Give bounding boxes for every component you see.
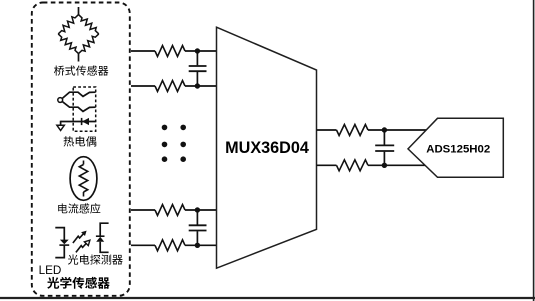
ground lead	[60, 121, 62, 126]
photodetector cathode bar	[96, 235, 105, 237]
resistor R5	[337, 125, 369, 136]
LED top lead	[55, 228, 64, 240]
thermocouple junction circle	[58, 98, 63, 103]
node junction dot ch4	[195, 243, 200, 248]
capacitor C3 lead bottom	[383, 152, 385, 166]
resistor R3	[155, 205, 185, 216]
wire output 1 to adc	[368, 129, 427, 131]
wire input ch4 to mux	[185, 244, 217, 246]
ellipsis dots column 2	[180, 125, 186, 131]
wire input ch4 lead	[131, 244, 155, 246]
ground symbol	[57, 125, 64, 130]
wire input ch3 to mux	[185, 209, 217, 211]
ellipsis dots column 1	[162, 125, 168, 131]
diode D1 cathode bar	[81, 118, 83, 125]
current sense ellipse	[70, 157, 97, 201]
wire input ch2 to mux	[185, 85, 217, 87]
sensor group dashed box	[32, 3, 130, 296]
label bridge sensor 桥式传感器	[54, 65, 108, 75]
thermocouple dashed boundary	[73, 87, 96, 131]
bridge sensor resistor bottom-left arm	[58, 34, 78, 54]
wire mux output 1	[317, 129, 337, 131]
thermocouple wire top	[62, 92, 95, 98]
wire mux output 2	[317, 164, 337, 166]
capacitor C3 plates	[375, 144, 394, 146]
photodetector bottom lead	[100, 242, 108, 253]
capacitor C2 lead bottom	[196, 231, 198, 245]
capacitor C2 plates	[189, 224, 207, 226]
current sense shunt resistor	[83, 161, 85, 165]
photodetector top lead	[100, 223, 108, 236]
page border bottom	[0, 297, 535, 299]
resistor R4	[155, 240, 185, 251]
light arrow 2	[76, 243, 87, 252]
svg-text:ADS125H02: ADS125H02	[426, 144, 490, 156]
capacitor C1 lead bottom	[196, 72, 198, 86]
svg-text:MUX36D04: MUX36D04	[225, 139, 309, 157]
node junction dot ch2	[195, 83, 200, 88]
wire input ch1 lead	[131, 50, 155, 52]
svg-text:LED: LED	[39, 264, 62, 277]
capacitor C3 lead top	[383, 130, 385, 145]
label optical sensors 光学传感器 (bold)	[47, 277, 110, 289]
bridge sensor resistor bottom-right arm	[79, 34, 99, 54]
node junction dot out1	[382, 127, 387, 132]
node junction dot ch3	[195, 207, 200, 212]
capacitor C2 lead top	[196, 210, 198, 225]
label photodetector 光电探测器	[68, 254, 123, 264]
node junction dot ch1	[195, 48, 200, 53]
diode D1 triangle	[82, 118, 89, 125]
wire output 2 to adc	[368, 164, 426, 166]
label thermocouple 热电偶	[64, 136, 97, 146]
wire input ch2 lead	[131, 85, 155, 87]
light arrow 1	[73, 234, 84, 243]
bridge sensor resistor top-left arm	[58, 15, 78, 34]
thermocouple bias wire	[61, 121, 96, 123]
thermocouple wire bottom	[62, 102, 95, 112]
capacitor C1 plates	[189, 65, 207, 67]
photodetector triangle	[96, 237, 104, 242]
bridge sensor top terminal	[78, 7, 80, 15]
page border right	[533, 0, 535, 301]
node junction dot out2	[382, 163, 387, 168]
resistor R6	[337, 160, 369, 171]
adc U2 ADS125H02 body	[408, 118, 503, 177]
bridge sensor bottom terminal	[78, 54, 80, 62]
wire input ch1 to mux	[185, 50, 217, 52]
capacitor C1 lead top	[196, 51, 198, 65]
resistor R1	[155, 46, 185, 57]
LED bottom lead	[55, 245, 64, 258]
mux U1 MUX36D04 body	[217, 27, 317, 268]
LED triangle	[60, 240, 69, 245]
label current sense 电流感应	[58, 203, 100, 213]
LED cathode bar	[59, 244, 69, 246]
wire input ch3 lead	[131, 209, 155, 211]
bridge sensor resistor top-right arm	[79, 15, 99, 34]
resistor R2	[155, 81, 185, 92]
